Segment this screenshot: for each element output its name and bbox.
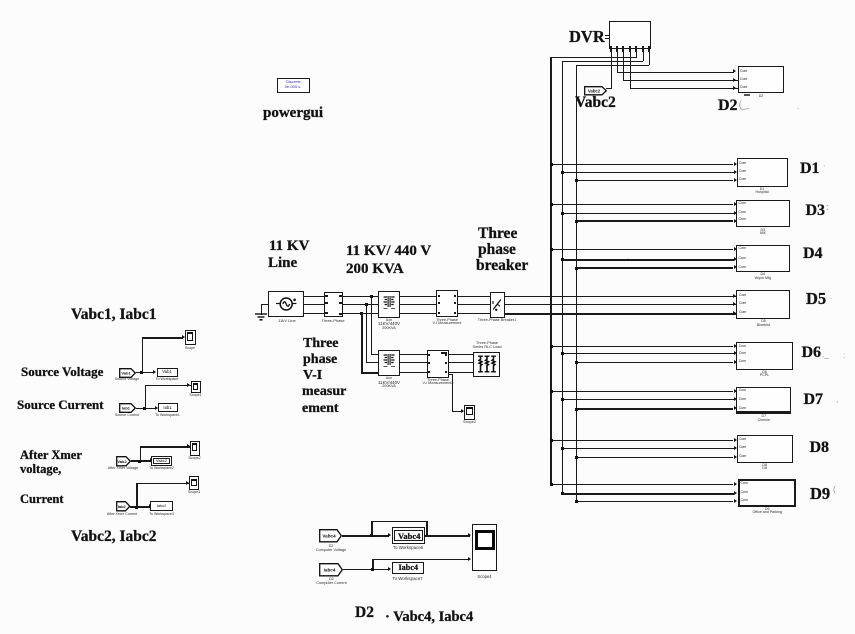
wire bus to D9 phase 2 <box>562 493 734 495</box>
wire bus to D9 phase 1 <box>550 484 733 485</box>
three-phase branch label <box>321 319 344 323</box>
scope Scope2 <box>464 405 475 420</box>
load block D3 <box>736 200 790 227</box>
D8 sublabel1 <box>762 464 767 468</box>
wire bus to D4 phase 3 <box>576 267 734 268</box>
DVR port tick 2 <box>616 46 618 52</box>
arrowhead into D1 phase 1 <box>734 162 737 166</box>
three-phase branch block <box>324 292 343 318</box>
wire G2 branch vertical <box>145 385 146 409</box>
wire tap vertical phase2 <box>366 304 367 363</box>
VI1 port stub right <box>454 295 456 297</box>
scope Scope1 <box>185 330 196 346</box>
powergui text line2 <box>285 85 302 89</box>
svg-text:Vab2: Vab2 <box>117 458 127 463</box>
wire DVR p3 to D2 phase2 <box>623 80 738 81</box>
port stub left <box>325 302 328 304</box>
wire bus to D8 phase 2 <box>562 448 734 449</box>
wire VI2-scope vertical <box>452 374 453 412</box>
speck right of D7 <box>836 396 838 404</box>
bus C vertical <box>576 65 577 501</box>
port stub right <box>339 295 342 297</box>
arrowhead into D5 phase3 <box>733 311 736 315</box>
D4 sublabel2 <box>755 277 771 281</box>
load block D7 <box>736 387 791 414</box>
from tag Iabc2 after xmer current <box>116 501 131 512</box>
D6 port label 1 <box>739 345 746 348</box>
node D1 tap 3 <box>575 179 578 182</box>
wire DVR p1 vertical to Vabc2 tag <box>611 52 612 89</box>
annotation 200 KVA <box>346 262 404 277</box>
node branch G1 <box>140 371 143 374</box>
node D9 tap 3 <box>575 500 578 503</box>
wire tag3 to workspace3 <box>131 460 152 461</box>
wire DVR p7 vertical <box>649 52 650 66</box>
wire G1 branch vertical <box>142 337 143 372</box>
arrowhead into D7 phase 3 <box>734 406 737 410</box>
wire bus to D7 phase 3 <box>576 408 734 409</box>
workspace1 label <box>156 378 179 382</box>
annotation 11KV 440V <box>346 244 431 259</box>
wire Iabc4 tag to workspace7 <box>343 569 389 570</box>
speck right of D3 <box>826 203 829 212</box>
V-I measurement block VI2 <box>427 350 449 378</box>
transformer T2 11KV/440V lower <box>378 350 400 376</box>
arrowhead into scope4a <box>186 481 189 485</box>
Scope2 label <box>463 421 476 425</box>
wire ground vertical <box>261 304 262 315</box>
node D3 tap 1 <box>550 203 553 206</box>
wire bus to D4 phase 2 <box>562 259 734 261</box>
powergui block <box>277 78 310 93</box>
workspace7 label <box>392 577 422 581</box>
annotation ement <box>302 402 339 416</box>
T2 label line2 <box>378 381 400 385</box>
D3 sublabel2 <box>760 232 765 236</box>
D3 port label 3 <box>739 218 746 221</box>
three-phase series RLC load block <box>473 352 501 377</box>
D9 sublabel1 <box>765 508 770 512</box>
DVR port tick 3 <box>622 46 624 52</box>
D1 sublabel2 <box>756 191 769 195</box>
node branch G2 <box>143 407 146 410</box>
T2 winding icon <box>382 353 396 370</box>
port stub right <box>339 302 342 304</box>
wire G1 to scope1 <box>142 337 183 338</box>
scope Scope3a <box>189 476 199 490</box>
AC voltage source block 11kV Line <box>268 291 304 318</box>
D2 sublabel <box>759 95 764 99</box>
wire DVR p7 horizontal to bus C <box>576 65 649 66</box>
wire to Scope2 horiz <box>452 411 463 412</box>
Scope3a label <box>188 491 200 495</box>
to-workspace block Vab1 <box>157 368 178 377</box>
wire tp-T1 phase 3 <box>340 313 379 315</box>
T1 label line3 <box>382 327 396 331</box>
arrowhead into workspace4 <box>149 504 152 508</box>
wire DVR p4 to D2 phase3 <box>630 88 738 89</box>
arrowhead into D3 phase 3 <box>734 219 737 223</box>
D8 sublabel2 <box>762 467 767 471</box>
annotation Current <box>20 493 64 506</box>
svg-text:Vab1: Vab1 <box>121 370 131 375</box>
D2 port label <box>740 70 747 73</box>
VI1 label line2 <box>433 322 462 326</box>
wire bus to D1 phase 3 <box>576 180 734 181</box>
wire bus to D4 phase 1 <box>550 249 733 250</box>
annotation D1 <box>800 161 820 177</box>
arrowhead into D2 a <box>733 69 736 73</box>
node branch G3 <box>138 460 141 463</box>
D7 port label 1 <box>739 389 746 392</box>
DVR port tick 4 <box>629 46 631 52</box>
scope Scope2a <box>190 441 200 456</box>
annotation Vabc1 Iabc1 <box>71 307 157 323</box>
wire bus to D8 phase 3 <box>576 457 734 458</box>
VI1 port stub left <box>438 295 440 297</box>
wire bus to D8 phase 1 <box>550 440 733 441</box>
node D1 tap 2 <box>561 171 564 174</box>
arrowhead into D9 phase 3 <box>734 499 737 503</box>
node D6 tap 3 <box>575 361 578 364</box>
VI2 top-right port mark <box>441 352 447 355</box>
D9 port label 1 <box>741 482 748 485</box>
arrowhead into D6 phase 2 <box>734 351 737 355</box>
D9 port label 3 <box>741 499 748 502</box>
RLC load icon <box>474 355 500 374</box>
wire bus to D6 phase 1 <box>550 346 733 347</box>
annotation D2 <box>718 98 738 114</box>
node D6 tap 2 <box>561 352 564 355</box>
annotation measur <box>302 385 346 399</box>
DVR port tick 5 <box>635 46 637 52</box>
T1 winding icon <box>382 295 396 312</box>
tag5 label line2 <box>316 549 346 553</box>
wire tag4 to workspace4 <box>130 506 150 507</box>
D1 port label 1 <box>739 162 746 165</box>
wire DVR p3 vertical <box>623 52 624 81</box>
load block D8 <box>737 435 793 463</box>
wire src-tp phase 3 <box>302 313 325 315</box>
Scope1a label <box>189 394 201 398</box>
D9 sublabel2 <box>752 511 782 515</box>
D3 port label 1 <box>739 202 746 205</box>
D8 port label 3 <box>739 455 746 458</box>
arrowhead into D4 phase 3 <box>734 265 737 269</box>
DVR port tick 6 <box>642 46 644 52</box>
node tap phase2 <box>365 303 368 306</box>
D3 port label 2 <box>739 211 746 214</box>
node D8 tap 1 <box>550 439 553 442</box>
wire tag2 to workspace2 <box>136 408 156 409</box>
wire breaker-D5 phase 3 <box>504 313 737 315</box>
to-workspace block Iabc4 <box>392 562 425 574</box>
scope Scope2 screen <box>466 407 473 415</box>
T1 label line2 <box>378 322 400 326</box>
from tag Vabc4 D2 computer voltage <box>319 529 342 543</box>
RLC load label line2 <box>473 346 502 350</box>
wire VI2-load phase3 <box>448 372 473 374</box>
arrowhead into D7 phase 1 <box>734 389 737 393</box>
scope Scope3a screen <box>191 479 197 486</box>
T1 label line1 <box>386 319 392 323</box>
node branch Iabc4 <box>371 568 374 571</box>
wire G4 branch vertical <box>136 483 137 507</box>
to-workspace block Vabc4 <box>392 527 426 543</box>
annotation DVR <box>569 29 605 46</box>
wire Vabc4 bypass top <box>371 521 427 522</box>
speck right of D6 <box>822 351 829 359</box>
annotation phase <box>478 242 516 258</box>
Scope4 label <box>477 575 491 579</box>
Iab1 text <box>163 406 171 410</box>
wire DVR p2 vertical <box>617 52 618 73</box>
D6 port label 3 <box>739 360 746 363</box>
D4 port label 2 <box>739 257 746 260</box>
VI1 label line1 <box>436 319 458 323</box>
wire T1-VI1 phase 1 <box>399 296 437 297</box>
VI2 label line2 <box>422 382 453 386</box>
wire VI1-breaker phase 3 <box>457 313 491 315</box>
to-workspace block Iabc2 <box>150 501 173 511</box>
scope Scope1a <box>191 381 201 393</box>
VI2 port stub right <box>445 362 447 364</box>
annotation D4 <box>803 246 823 262</box>
D1 sublabel1 <box>760 188 765 192</box>
workspace2 label <box>155 414 180 418</box>
wire T2-VI2 phase2 <box>399 362 427 363</box>
arrowhead into D8 phase 2 <box>734 446 737 450</box>
arrowhead into D3 phase 1 <box>734 202 737 206</box>
from tag Iabc4 D2 computer current <box>319 563 343 577</box>
VI1 port stub right <box>454 302 456 304</box>
wire workspace6 to scope4 <box>425 535 470 536</box>
VI2 port stub right <box>445 354 447 356</box>
D8 port label 2 <box>739 446 746 449</box>
wire G3 to scope <box>140 446 191 447</box>
node D3 tap 2 <box>561 212 564 215</box>
annotation Vabc2 tag <box>575 95 616 111</box>
wire src-tp phase 1 <box>302 296 325 297</box>
node D7 tap 2 <box>561 398 564 401</box>
D4 sublabel1 <box>760 273 765 277</box>
wire DVR p4 vertical <box>630 52 631 89</box>
D6 port label 2 <box>739 352 746 355</box>
speck near D2 label <box>738 98 749 111</box>
arrowhead into scope4 input2 <box>468 557 471 561</box>
wire bus to D1 phase 1 <box>550 164 733 165</box>
node D8 tap 2 <box>561 447 564 450</box>
tag6 label line2 <box>316 582 346 586</box>
annotation Line <box>268 256 297 271</box>
from tag Iabc1 source current <box>119 403 136 413</box>
VI2 port stub left <box>428 354 430 356</box>
annotation breaker <box>476 258 528 274</box>
wire DVR p2 to D2 phase1 <box>617 72 734 73</box>
arrowhead into D3 phase 2 <box>734 211 737 215</box>
breaker switch icon <box>492 296 503 313</box>
D5 sublabel2 <box>757 324 770 328</box>
wire breaker-D5 phase 1 <box>504 296 737 297</box>
wire G3 branch vertical <box>140 446 141 461</box>
workspace6 inner border <box>394 530 423 541</box>
D9 port label 2 <box>741 491 748 494</box>
arrowhead into scope1a <box>187 383 190 387</box>
V-I measurement block VI1 <box>436 290 458 317</box>
annotation Vabc2 Iabc2 <box>71 529 157 545</box>
tag3 label <box>108 467 138 471</box>
node D4 tap 1 <box>550 248 553 251</box>
D1 port label 3 <box>739 178 746 181</box>
wire into T2 phase1 <box>371 354 378 355</box>
bus A vertical <box>550 57 551 484</box>
transformer T1 11KV/440V <box>378 291 400 318</box>
D5 port label <box>739 311 746 314</box>
port stub right <box>339 313 342 315</box>
arrowhead into D8 phase 3 <box>734 455 737 459</box>
node D9 tap 2 <box>561 492 564 495</box>
node branch G4 <box>135 506 138 509</box>
DVR port tick 7 <box>648 46 650 52</box>
wire tp-T1 phase 2 <box>340 304 379 305</box>
workspace6 label <box>393 546 423 550</box>
svg-text:Iabc4: Iabc4 <box>324 567 336 572</box>
wire bus to D7 phase 2 <box>562 399 734 400</box>
arrowhead into D9 phase 1 <box>734 482 737 486</box>
wire into T2 phase2 <box>366 362 378 363</box>
workspace4 label <box>149 513 174 517</box>
load block D9 <box>738 479 796 507</box>
Scope4 screen <box>475 530 495 551</box>
T2 label line1 <box>386 377 392 381</box>
annotation D9 <box>810 486 830 503</box>
wire DVR p5 vertical <box>636 52 637 58</box>
arrowhead into D1 phase 3 <box>734 178 737 182</box>
arrowhead into D2 c <box>733 86 736 90</box>
arrowhead into D9 phase 2 <box>734 491 737 495</box>
node tap phase3 <box>360 312 363 315</box>
D7 sublabel1 <box>762 415 767 419</box>
wire Vabc4 bypass down <box>426 521 427 536</box>
wire VI2 measurement out <box>448 374 452 375</box>
Iabc2 text <box>157 504 167 508</box>
powergui text line1 <box>286 80 302 84</box>
speck right of D9 <box>833 486 836 494</box>
arrowhead into scope4 input1 <box>468 533 471 537</box>
speck near powergui far right <box>797 103 799 111</box>
wire Iabc4 branch up <box>372 559 373 570</box>
D2 port label <box>740 78 747 81</box>
arrowhead into scope3 <box>187 444 190 448</box>
Scope2a label <box>188 457 200 461</box>
wire DVR p6 horizontal to bus B <box>562 61 643 62</box>
VI1 port stub right <box>454 312 456 314</box>
wire G2 to scope <box>145 385 191 386</box>
D5 port label <box>739 302 746 305</box>
wire bus to D3 phase 3 <box>576 220 734 222</box>
bus B vertical <box>562 61 563 493</box>
tag1 label <box>115 378 139 382</box>
wire VI1-breaker phase 1 <box>457 296 491 297</box>
annotation Three 2 <box>303 337 339 351</box>
VI2 port stub left <box>428 362 430 364</box>
D4 port label 1 <box>739 247 746 250</box>
wire Vabc4 bypass up <box>371 521 372 536</box>
annotation voltage <box>20 463 61 476</box>
T2 label line3 <box>382 385 396 389</box>
wire source to ground horiz <box>261 304 269 305</box>
port stub left <box>325 312 328 314</box>
svg-text:Iab1: Iab1 <box>122 406 131 411</box>
load block D4 <box>736 245 790 272</box>
VI2 port stub left <box>428 371 430 373</box>
wire breaker-D5 phase 2 <box>504 304 737 305</box>
arrowhead into D1 phase 2 <box>734 170 737 174</box>
load block D5 <box>736 290 790 319</box>
tag2 label <box>115 414 139 418</box>
wire src-tp phase 2 <box>302 304 325 305</box>
load block D6 <box>736 342 793 370</box>
wire bus to D3 phase 1 <box>550 204 733 205</box>
wire VI1-breaker phase 2 <box>457 304 491 305</box>
D3 sublabel1 <box>760 229 765 233</box>
wire into T2 phase3 <box>361 372 378 374</box>
annotation Three <box>478 226 517 242</box>
D7 port label 3 <box>739 407 746 410</box>
speck left margin near main line <box>627 253 629 261</box>
scope Scope2a screen <box>192 443 197 451</box>
node D8 tap 3 <box>575 456 578 459</box>
scope Scope1a screen <box>193 383 199 390</box>
annotation D7 <box>804 392 824 408</box>
arrowhead into workspace1 <box>153 370 156 374</box>
annotation Source Voltage <box>21 365 103 378</box>
annotation Vabc4 Iabc4 <box>385 610 473 625</box>
svg-text:Vabc2: Vabc2 <box>587 88 600 93</box>
DVR port tick 1 <box>610 46 612 52</box>
D6 sublabel2 <box>760 374 769 378</box>
annotation 11 KV <box>269 239 309 254</box>
D2 port label <box>740 86 747 89</box>
to-workspace block Iab1 <box>158 403 178 412</box>
VI1 port stub left <box>438 312 440 314</box>
from tag Vabc1 source voltage <box>119 368 136 378</box>
arrowhead into D6 phase 3 <box>734 360 737 364</box>
wire tp-T1 phase 1 <box>340 296 379 297</box>
arrowhead into workspace3 <box>150 458 153 462</box>
D6 sublabel1 <box>762 371 767 375</box>
DVR label tick upper <box>605 35 610 36</box>
scope Scope1 screen <box>187 332 193 341</box>
wire bus to D6 phase 2 <box>562 353 734 354</box>
annotation powergui <box>263 106 323 121</box>
arrowhead into D7 phase 2 <box>734 397 737 401</box>
node D1 tap 1 <box>550 163 553 166</box>
arrowhead into D8 phase 1 <box>734 438 737 442</box>
tag4 label <box>107 513 137 517</box>
annotation D5 <box>806 291 826 308</box>
annotation D8 <box>810 440 830 456</box>
annotation D3 <box>806 203 826 219</box>
source label <box>278 319 296 323</box>
node tap phase1 <box>370 295 373 298</box>
wire tap vertical phase1 <box>371 296 372 355</box>
arrowhead into workspace7 <box>388 567 391 571</box>
arrowhead into scope1 <box>182 335 185 339</box>
arrowhead into D2 b <box>733 78 736 82</box>
wire Vabc2 tag to DVR <box>606 88 611 89</box>
node D4 tap 2 <box>561 258 564 261</box>
